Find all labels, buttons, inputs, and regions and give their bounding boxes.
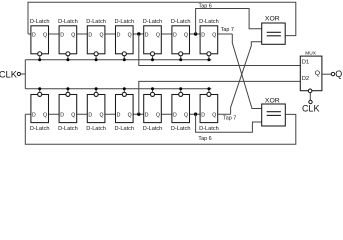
svg-text:D: D — [88, 32, 92, 38]
svg-text:D: D — [201, 112, 205, 118]
svg-text:CLK: CLK — [302, 103, 320, 113]
xor U2 (bottom feedback XOR) — [262, 104, 286, 126]
wire: top tap6 to XOR U1 input — [196, 9, 262, 35]
svg-text:Q: Q — [71, 112, 75, 118]
svg-text:D-Latch: D-Latch — [199, 126, 219, 132]
svg-text:D: D — [145, 32, 149, 38]
svg-text:D-Latch: D-Latch — [171, 19, 191, 25]
xor U1 (top feedback XOR) — [262, 23, 286, 44]
wire: MUX output lead — [322, 73, 331, 75]
D-latch U2 (top row stage 2) — [59, 26, 77, 54]
wire: top clock rail — [25, 59, 211, 61]
D-latch U6 (top row stage 6) — [172, 26, 190, 54]
D-latch U4 (top row stage 4) — [116, 26, 134, 54]
svg-text:D-Latch: D-Latch — [143, 126, 163, 132]
svg-text:Q: Q — [71, 32, 75, 38]
mux U3 — [300, 56, 322, 91]
svg-text:CLK: CLK — [0, 70, 18, 80]
wire: top feedback loop — [28, 2, 296, 35]
svg-text:Q: Q — [128, 32, 132, 38]
svg-text:D-Latch: D-Latch — [199, 19, 219, 25]
svg-text:Tap 6: Tap 6 — [199, 3, 212, 9]
D-latch U11 (bottom row stage 4) — [116, 95, 134, 123]
D-latch U9 (bottom row stage 2) — [59, 95, 77, 123]
svg-text:D: D — [117, 112, 121, 118]
wire: bottom row Q-D chain — [25, 113, 230, 115]
svg-text:D-Latch: D-Latch — [86, 19, 106, 25]
wire: MUX D1 input — [139, 34, 300, 66]
D-latch U13 (bottom row stage 6) — [172, 95, 190, 123]
svg-text:Q: Q — [315, 70, 320, 77]
svg-text:Tap 7: Tap 7 — [221, 27, 234, 33]
svg-text:Q: Q — [43, 32, 47, 38]
D-latch U10 (bottom row stage 3) — [87, 95, 105, 123]
D-latch U5 (top row stage 5) — [144, 26, 162, 54]
port Q output — [331, 72, 334, 75]
svg-text:Q: Q — [212, 112, 216, 118]
wire: top row Q-D chain — [28, 33, 232, 35]
svg-text:XOR: XOR — [265, 97, 280, 104]
wire: bottom clock rail — [25, 88, 211, 90]
port CLK input — [17, 72, 20, 75]
D-latch U14 (bottom row stage 7) — [200, 95, 218, 123]
wire: CLK vertical joining rails — [24, 60, 26, 89]
svg-text:Q: Q — [128, 112, 132, 118]
svg-text:D-Latch: D-Latch — [58, 19, 78, 25]
wire: bottom tap6 to XOR U2 input — [196, 114, 262, 132]
svg-text:D: D — [32, 32, 36, 38]
svg-text:Q: Q — [156, 32, 160, 38]
svg-text:MUX: MUX — [305, 50, 316, 56]
svg-text:Q: Q — [43, 112, 47, 118]
port CLK select — [309, 100, 312, 103]
svg-text:D-Latch: D-Latch — [30, 126, 50, 132]
wire: MUX select lead — [309, 93, 311, 101]
svg-text:Q: Q — [184, 32, 188, 38]
svg-text:Q: Q — [212, 32, 216, 38]
svg-text:D: D — [173, 32, 177, 38]
svg-text:D: D — [173, 112, 177, 118]
svg-text:Q: Q — [99, 32, 103, 38]
svg-text:D-Latch: D-Latch — [115, 19, 135, 25]
svg-text:D-Latch: D-Latch — [171, 126, 191, 132]
D-latch U7 (top row stage 7) — [200, 26, 218, 54]
svg-text:D-Latch: D-Latch — [115, 126, 135, 132]
svg-text:D1: D1 — [302, 60, 309, 66]
svg-text:D-Latch: D-Latch — [86, 126, 106, 132]
svg-text:XOR: XOR — [265, 15, 280, 22]
wire: MUX D2 input — [139, 81, 300, 114]
D-latch U3 (top row stage 3) — [87, 26, 105, 54]
svg-text:D-Latch: D-Latch — [143, 19, 163, 25]
svg-text:Q: Q — [335, 69, 342, 79]
svg-text:Q: Q — [99, 112, 103, 118]
node Tap6 bottom junction — [194, 113, 197, 116]
svg-text:D: D — [201, 32, 205, 38]
wire: bottom tap7 diagonal to XOR U1 input — [231, 42, 262, 115]
svg-text:D: D — [60, 112, 64, 118]
svg-text:D: D — [117, 32, 121, 38]
node D1 tap junction — [137, 32, 140, 35]
mux select bubble — [308, 89, 312, 93]
svg-text:Tap 6: Tap 6 — [198, 136, 211, 142]
svg-text:D: D — [88, 112, 92, 118]
D-latch U12 (bottom row stage 5) — [144, 95, 162, 123]
wire: bottom feedback loop — [25, 114, 296, 144]
svg-text:Q: Q — [156, 112, 160, 118]
svg-text:D: D — [60, 32, 64, 38]
svg-text:D-Latch: D-Latch — [58, 126, 78, 132]
svg-text:D: D — [32, 112, 36, 118]
svg-text:D-Latch: D-Latch — [30, 19, 50, 25]
node D2 tap junction — [137, 113, 140, 116]
wire: top tap7 diagonal to XOR U2 input — [232, 34, 261, 109]
D-latch U8 (bottom row stage 1) — [31, 95, 49, 123]
wire: CLK port lead — [21, 73, 26, 75]
svg-text:D: D — [145, 112, 149, 118]
svg-text:Tap 7: Tap 7 — [223, 115, 236, 121]
svg-text:Q: Q — [184, 112, 188, 118]
D-latch U1 (top row stage 1) — [31, 26, 49, 54]
svg-text:D2: D2 — [302, 76, 309, 82]
node Tap6 top junction — [194, 32, 197, 35]
